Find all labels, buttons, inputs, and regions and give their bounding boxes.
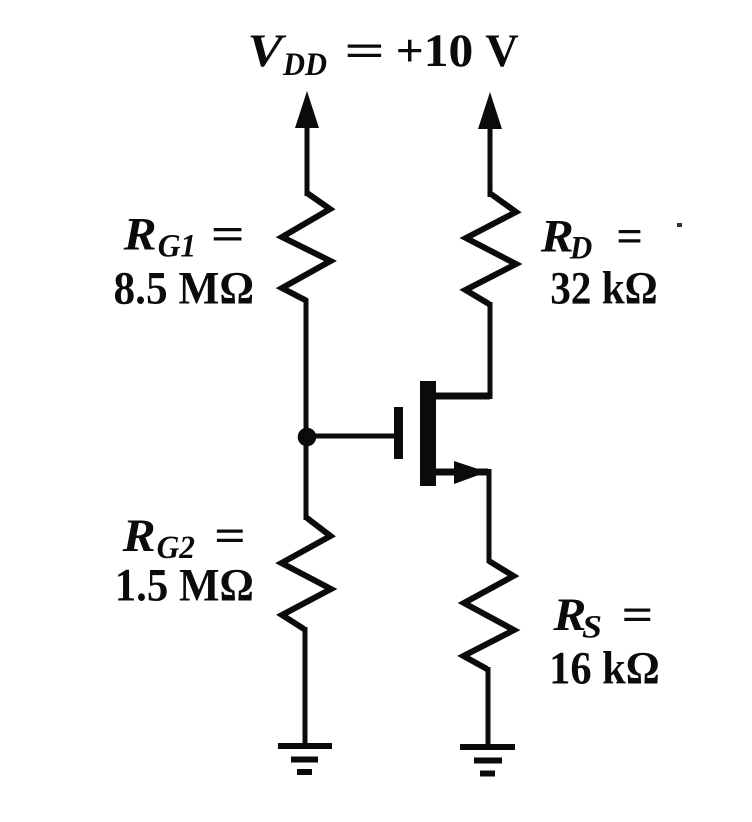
resistor RG2 [282,518,332,629]
wire gate horizontal [307,434,396,439]
svg-text:8.5 MΩ: 8.5 MΩ [114,263,255,315]
svg-text:32 kΩ: 32 kΩ [550,263,658,315]
svg-text:V: V [485,25,519,77]
ground symbol (right) [460,747,515,774]
svg-text:R: R [122,510,156,562]
svg-text:G1: G1 [158,229,197,265]
transistor M1 gate bar [394,407,403,459]
svg-text:S: S [582,610,602,646]
svg-text:V: V [247,25,287,77]
svg-text:R: R [123,209,157,261]
svg-text:+10: +10 [396,25,474,77]
svg-text:=: = [622,589,654,641]
svg-text:DD: DD [282,47,327,83]
speck artifact [677,223,682,227]
svg-text:=: = [616,211,643,263]
resistor RS [464,561,515,669]
resistor RG1 [282,193,331,301]
transistor M1 source lead with arrow [434,461,488,484]
label RS = 16 kOhm [549,589,660,695]
transistor M1 channel bar [420,381,436,486]
svg-text:D: D [569,231,592,267]
svg-text:16 kΩ: 16 kΩ [549,643,660,695]
wire RS bottom to ground [486,667,491,747]
power arrow to VDD (left branch) [295,91,319,196]
power arrow to VDD (right branch) [478,92,502,197]
wire source to RS top [487,469,492,563]
svg-text:1.5 MΩ: 1.5 MΩ [115,560,254,612]
node at gate junction [298,428,317,447]
label RG1 = 8.5 MOhm [114,209,255,315]
wire RG1 bottom to gate node to RG2 top [304,299,309,520]
svg-text:=: = [344,25,385,77]
label RG2 = 1.5 MOhm [115,510,254,612]
ground symbol (left) [278,746,332,772]
transistor M1 drain lead [434,393,490,400]
net VDD label "VDD = +10 V" [247,25,518,83]
svg-text:=: = [214,510,246,562]
resistor RD [466,194,517,304]
wire RG2 bottom to ground [303,627,308,746]
label RD = 32 kOhm [540,211,658,315]
svg-text:R: R [540,211,574,263]
wire RD bottom to drain [488,302,493,399]
svg-text:=: = [211,209,245,261]
